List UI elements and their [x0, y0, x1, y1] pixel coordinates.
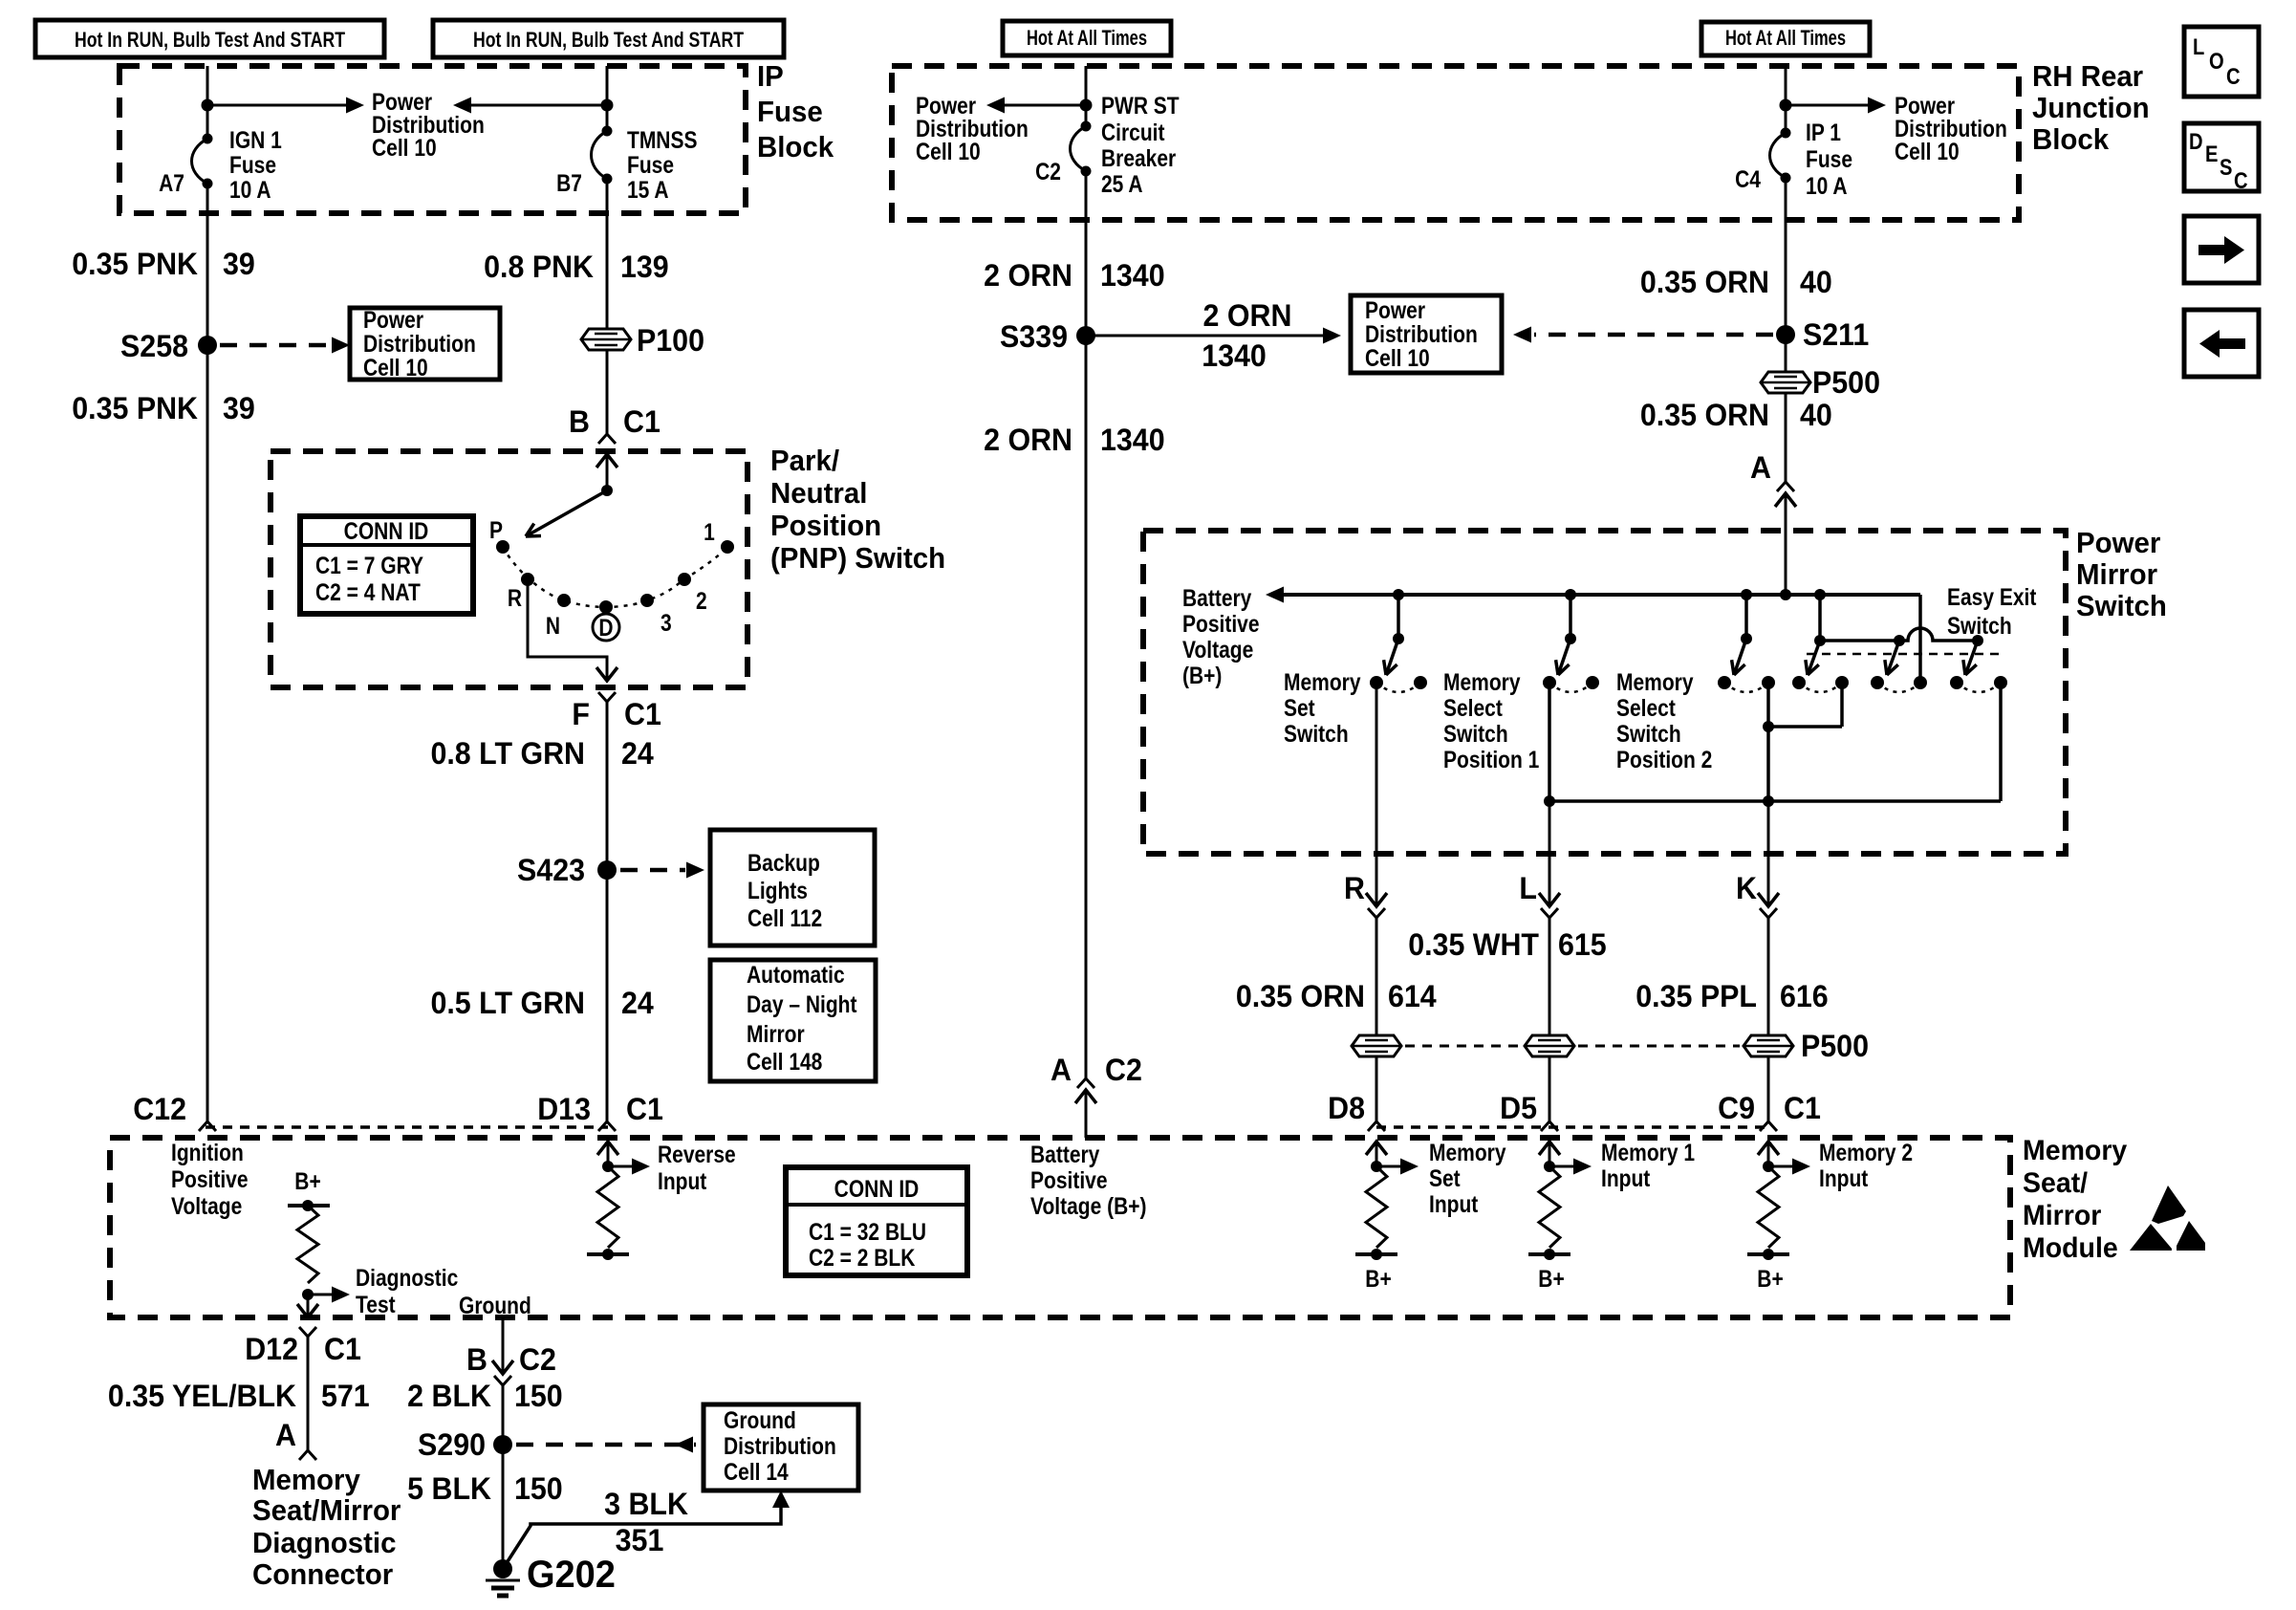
wire 0.35 ORN 40	[1785, 178, 1787, 482]
svg-text:C1: C1	[1784, 1091, 1821, 1125]
svg-text:Connector: Connector	[252, 1558, 393, 1591]
svg-text:Voltage: Voltage	[171, 1192, 242, 1219]
icon box left arrow	[2184, 310, 2259, 377]
svg-text:Ground: Ground	[459, 1292, 531, 1318]
svg-text:0.8 PNK: 0.8 PNK	[484, 250, 594, 284]
svg-text:B: B	[569, 404, 590, 439]
svg-text:1340: 1340	[1100, 423, 1165, 457]
circuit breaker PWR ST 25A	[1071, 126, 1087, 171]
svg-text:C2: C2	[519, 1342, 556, 1377]
svg-text:Voltage: Voltage	[1182, 636, 1253, 663]
svg-text:39: 39	[223, 391, 255, 425]
svg-text:Mirror: Mirror	[2076, 558, 2157, 591]
CONN ID box (module)	[786, 1167, 967, 1275]
easy exit switch sw4	[1808, 641, 1820, 675]
svg-text:351: 351	[616, 1523, 664, 1557]
wire TMNSS feed	[606, 66, 609, 131]
svg-text:Memory: Memory	[1429, 1139, 1506, 1165]
dashed ref arrow S423	[620, 868, 685, 873]
svg-text:N: N	[546, 612, 560, 639]
svg-text:150: 150	[514, 1379, 563, 1413]
svg-text:Memory: Memory	[2023, 1135, 2128, 1166]
svg-text:P100: P100	[637, 323, 704, 358]
svg-text:Hot In RUN, Bulb Test And STAR: Hot In RUN, Bulb Test And START	[75, 30, 346, 53]
svg-text:Cell 10: Cell 10	[1365, 344, 1430, 371]
sw3-sw4 link	[1766, 683, 1770, 801]
svg-text:Test: Test	[356, 1291, 396, 1317]
bus corner to easy exit	[1918, 595, 1922, 683]
arrow S339 to Power Distribution	[1086, 335, 1326, 337]
svg-text:Position: Position	[770, 510, 881, 542]
svg-text:1: 1	[704, 518, 715, 545]
svg-text:0.35 YEL/BLK: 0.35 YEL/BLK	[108, 1379, 297, 1413]
svg-text:Junction: Junction	[2032, 92, 2150, 124]
svg-text:Hot At All Times: Hot At All Times	[1725, 28, 1846, 51]
svg-text:Battery: Battery	[1030, 1141, 1099, 1167]
svg-text:3: 3	[661, 609, 672, 636]
PNP contact N	[557, 594, 571, 607]
svg-text:150: 150	[514, 1471, 563, 1506]
Power Mirror Switch dashed box	[1143, 531, 2066, 854]
connector D5 fork	[1541, 1121, 1558, 1131]
svg-text:139: 139	[620, 250, 669, 284]
bus junction sw3	[1741, 589, 1752, 600]
PNP wiper arrow to P	[526, 490, 607, 536]
PNP entry arrow	[596, 454, 617, 468]
PNP contact R	[521, 573, 534, 586]
svg-text:40: 40	[1800, 265, 1832, 299]
svg-text:(B+): (B+)	[1182, 662, 1222, 688]
wire IP1 feed	[1785, 66, 1787, 133]
svg-text:Battery: Battery	[1182, 584, 1251, 611]
svg-text:CONN ID: CONN ID	[834, 1175, 920, 1202]
svg-text:IP 1: IP 1	[1806, 119, 1841, 145]
svg-text:Voltage (B+): Voltage (B+)	[1030, 1192, 1147, 1219]
arrow to Power Distribution (from TMNSS)	[468, 104, 607, 107]
svg-text:15 A: 15 A	[627, 176, 669, 203]
easy exit switch sw5	[1887, 641, 1899, 675]
svg-text:Switch: Switch	[1616, 720, 1681, 747]
box Automatic Day-Night Mirror Cell 148	[710, 960, 876, 1081]
junction on PWR ST feed	[1080, 99, 1093, 112]
svg-text:614: 614	[1388, 979, 1437, 1013]
svg-text:Module: Module	[2023, 1232, 2118, 1264]
svg-text:S: S	[2220, 154, 2232, 180]
fuse TMNSS 15A	[592, 131, 608, 179]
memory input resistor at x=1850	[1758, 1142, 1779, 1155]
svg-text:Fuse: Fuse	[757, 96, 823, 128]
header box: Hot At All Times (middle)	[1003, 21, 1171, 55]
svg-text:C9: C9	[1718, 1091, 1755, 1125]
svg-text:Positive: Positive	[1030, 1166, 1108, 1193]
wire PWR ST feed	[1085, 66, 1088, 126]
svg-text:2 ORN: 2 ORN	[1203, 298, 1292, 333]
arrow to Power Distribution (left)	[207, 104, 349, 107]
svg-text:Neutral: Neutral	[770, 477, 867, 510]
svg-text:S339: S339	[1000, 319, 1068, 354]
splice S211	[1776, 325, 1795, 344]
svg-text:Cell 10: Cell 10	[363, 354, 428, 381]
svg-text:Lights: Lights	[747, 877, 808, 903]
svg-text:Distribution: Distribution	[1365, 320, 1478, 347]
svg-text:A: A	[1750, 450, 1771, 485]
dashed ref arrow S290	[516, 1443, 696, 1447]
svg-text:5 BLK: 5 BLK	[407, 1471, 491, 1506]
P500 dashed tie 1	[1405, 1045, 1521, 1048]
svg-text:CONN ID: CONN ID	[344, 517, 429, 544]
svg-text:Backup: Backup	[747, 849, 820, 876]
battery bus with arrow	[1281, 593, 1920, 597]
svg-text:S290: S290	[418, 1427, 486, 1462]
svg-text:(PNP) Switch: (PNP) Switch	[770, 542, 945, 575]
PNP contact 3	[640, 594, 654, 607]
svg-text:39: 39	[223, 247, 255, 281]
splice S258	[198, 336, 217, 355]
connector C9 C1 fork	[1760, 1121, 1777, 1131]
svg-text:0.35 ORN: 0.35 ORN	[1236, 979, 1365, 1013]
svg-text:25 A: 25 A	[1101, 170, 1143, 197]
svg-text:0.8 LT GRN: 0.8 LT GRN	[430, 736, 585, 771]
svg-text:Switch: Switch	[1947, 612, 2012, 639]
svg-text:Input: Input	[658, 1167, 707, 1194]
svg-text:IGN 1: IGN 1	[229, 126, 282, 153]
dashed ref arrow S258	[220, 343, 331, 348]
svg-text:Circuit: Circuit	[1101, 119, 1165, 145]
fuse IP 1 10A	[1770, 133, 1787, 178]
svg-text:24: 24	[621, 736, 654, 771]
svg-text:C1: C1	[624, 697, 661, 731]
easy exit branch line with hop	[1818, 595, 1822, 641]
svg-text:Fuse: Fuse	[229, 151, 276, 178]
svg-text:C1 = 32 BLU: C1 = 32 BLU	[809, 1218, 926, 1245]
splice S423	[597, 860, 617, 880]
svg-text:Cell 14: Cell 14	[724, 1458, 789, 1485]
junction on IP1 feed	[1780, 99, 1792, 112]
svg-text:10 A: 10 A	[229, 176, 271, 203]
connector D8 fork	[1368, 1121, 1385, 1131]
svg-text:RH Rear: RH Rear	[2032, 60, 2143, 93]
connector P500 (right)	[1761, 372, 1810, 393]
svg-text:C1: C1	[623, 404, 661, 439]
arrow to Power Distribution (right)	[1786, 104, 1871, 107]
header box: Hot In RUN, Bulb Test And START (second)	[433, 20, 784, 57]
P500 dashed tie 2	[1578, 1045, 1740, 1048]
wire into power mirror switch	[1785, 493, 1787, 595]
header box: Hot In RUN, Bulb Test And START (left)	[35, 20, 384, 57]
svg-text:D13: D13	[537, 1092, 591, 1126]
svg-text:C2 = 2 BLK: C2 = 2 BLK	[809, 1244, 916, 1271]
dashed ref arrow S211 to Power Distribution	[1534, 333, 1773, 337]
RH Rear Junction Block dashed box	[892, 66, 2019, 220]
svg-text:2: 2	[696, 587, 707, 614]
reverse input resistor	[597, 1142, 618, 1155]
connector C1 fine dashed line (left)	[206, 1125, 608, 1129]
svg-text:G202: G202	[527, 1554, 616, 1596]
svg-text:K: K	[1736, 871, 1757, 905]
svg-text:Memory: Memory	[252, 1464, 360, 1496]
svg-text:Block: Block	[2032, 123, 2109, 156]
junction on IGN1 feed	[202, 99, 214, 112]
svg-text:Select: Select	[1616, 694, 1676, 721]
svg-text:Memory: Memory	[1443, 668, 1521, 695]
wire ground 150 lower	[502, 1385, 505, 1569]
svg-text:P500: P500	[1801, 1029, 1869, 1063]
3 BLK 351 branch to ground distribution	[503, 1508, 781, 1569]
connector A fork	[1777, 482, 1794, 491]
svg-text:Switch: Switch	[1443, 720, 1508, 747]
svg-text:B: B	[466, 1342, 487, 1377]
bus junction feed wire	[1780, 589, 1791, 600]
svg-text:L: L	[1519, 871, 1537, 905]
svg-text:Seat/Mirror: Seat/Mirror	[252, 1494, 401, 1527]
svg-text:B+: B+	[1757, 1265, 1783, 1292]
svg-text:Day – Night: Day – Night	[747, 990, 857, 1017]
svg-text:B7: B7	[556, 169, 582, 196]
svg-text:Memory 1: Memory 1	[1601, 1139, 1695, 1165]
svg-text:D5: D5	[1500, 1091, 1537, 1125]
svg-text:Hot In RUN, Bulb Test And STAR: Hot In RUN, Bulb Test And START	[473, 30, 745, 53]
svg-text:616: 616	[1780, 979, 1829, 1013]
svg-text:TMNSS: TMNSS	[627, 126, 697, 153]
svg-text:Select: Select	[1443, 694, 1503, 721]
wire ground 150 upper	[502, 1319, 505, 1374]
wire 0.35 YEL/BLK 571	[307, 1337, 310, 1450]
svg-text:0.35 ORN: 0.35 ORN	[1640, 398, 1769, 432]
svg-text:IP: IP	[757, 60, 784, 93]
bus junction sw2	[1565, 589, 1576, 600]
svg-text:C: C	[2234, 167, 2248, 193]
svg-text:PWR ST: PWR ST	[1101, 92, 1180, 119]
connector C1 fine dashed line (right)	[1376, 1125, 1768, 1129]
svg-text:2 ORN: 2 ORN	[984, 423, 1072, 457]
PNP contact 1	[721, 540, 734, 554]
svg-text:B+: B+	[294, 1167, 320, 1194]
svg-text:C1: C1	[626, 1092, 663, 1126]
Park/Neutral Position (PNP) Switch dashed box	[271, 451, 747, 687]
ESD symbol	[2152, 1186, 2186, 1224]
svg-text:C1 = 7 GRY: C1 = 7 GRY	[315, 552, 424, 578]
svg-text:Positive: Positive	[1182, 610, 1260, 637]
svg-text:Cell 112: Cell 112	[747, 904, 822, 931]
svg-text:Block: Block	[757, 131, 834, 163]
svg-text:3 BLK: 3 BLK	[604, 1487, 688, 1521]
svg-text:A7: A7	[159, 169, 184, 196]
svg-text:Memory: Memory	[1616, 668, 1694, 695]
svg-text:Mirror: Mirror	[747, 1020, 805, 1047]
svg-text:Input: Input	[1429, 1190, 1479, 1217]
svg-text:Park/: Park/	[770, 445, 840, 477]
svg-text:D: D	[598, 614, 613, 641]
bus junction sw1	[1393, 589, 1404, 600]
diagnostic connector end fork	[299, 1450, 316, 1460]
svg-text:Hot At All Times: Hot At All Times	[1027, 28, 1147, 51]
svg-text:S258: S258	[120, 329, 188, 363]
svg-text:Position 2: Position 2	[1616, 746, 1712, 772]
svg-text:Diagnostic: Diagnostic	[356, 1264, 458, 1291]
svg-text:40: 40	[1800, 398, 1832, 432]
svg-text:S423: S423	[517, 853, 585, 887]
wire 2 ORN 1340	[1085, 171, 1088, 1078]
CONN ID box (PNP)	[300, 516, 473, 614]
svg-text:Cell 10: Cell 10	[916, 138, 981, 164]
svg-text:F: F	[572, 697, 590, 731]
connector P100	[581, 329, 631, 350]
svg-text:R: R	[1344, 871, 1365, 905]
PNP contact P	[496, 540, 509, 554]
box Backup Lights Cell 112	[710, 830, 875, 946]
svg-text:Distribution: Distribution	[724, 1432, 836, 1459]
connector B C1 fork	[598, 434, 616, 444]
connector P500 (L wire)	[1525, 1035, 1574, 1056]
svg-text:Cell 10: Cell 10	[372, 134, 437, 161]
connector F C1 fork	[598, 692, 616, 702]
svg-text:A: A	[275, 1418, 296, 1452]
L wire out of switch	[1549, 801, 1551, 906]
svg-text:0.5 LT GRN: 0.5 LT GRN	[430, 986, 585, 1020]
svg-text:Power: Power	[2076, 527, 2161, 559]
svg-text:O: O	[2209, 48, 2224, 74]
icon box LOC	[2184, 27, 2259, 97]
ground G202	[493, 1559, 512, 1578]
svg-text:Position 1: Position 1	[1443, 746, 1539, 772]
svg-text:571: 571	[321, 1379, 370, 1413]
svg-text:Power: Power	[363, 306, 423, 333]
svg-text:24: 24	[621, 986, 654, 1020]
memory select switch position 1 (sw2)	[1569, 595, 1572, 639]
svg-text:C4: C4	[1735, 165, 1761, 192]
svg-text:0.35 ORN: 0.35 ORN	[1640, 265, 1769, 299]
icon box right arrow	[2184, 216, 2259, 283]
svg-text:Input: Input	[1601, 1164, 1651, 1191]
PNP contact arc	[503, 547, 727, 607]
svg-text:Ignition: Ignition	[171, 1139, 244, 1165]
svg-text:2 ORN: 2 ORN	[984, 258, 1072, 293]
connector P500 (K wire)	[1744, 1035, 1793, 1056]
svg-text:0.35 PNK: 0.35 PNK	[72, 391, 198, 425]
svg-text:Ground: Ground	[724, 1406, 796, 1433]
connector P500 (R wire)	[1352, 1035, 1401, 1056]
header box: Hot At All Times (right)	[1701, 22, 1870, 55]
svg-text:0.35 WHT: 0.35 WHT	[1408, 927, 1539, 962]
svg-text:Cell 148: Cell 148	[747, 1048, 823, 1075]
connector C12 fork	[199, 1121, 216, 1131]
svg-text:Switch: Switch	[1284, 720, 1349, 747]
svg-text:C2: C2	[1105, 1053, 1142, 1087]
wire 0.35 PNK 39	[206, 184, 209, 1121]
svg-text:Fuse: Fuse	[627, 151, 674, 178]
bus junction easy-exit branch	[1814, 589, 1826, 600]
fuse IGN 1 10A	[192, 139, 208, 184]
svg-text:0.35 PPL: 0.35 PPL	[1635, 979, 1757, 1013]
splice S290	[493, 1435, 512, 1454]
wire 2 ORN into module	[1085, 1090, 1088, 1138]
memory input resistor at x=1440	[1366, 1142, 1387, 1155]
svg-text:Input: Input	[1819, 1164, 1869, 1191]
svg-text:R: R	[508, 584, 522, 611]
R wire out of switch	[1375, 683, 1378, 906]
svg-text:Easy Exit: Easy Exit	[1947, 583, 2037, 610]
svg-text:Reverse: Reverse	[658, 1141, 736, 1167]
K wire out of switch	[1767, 801, 1770, 906]
svg-text:Memory 2: Memory 2	[1819, 1139, 1913, 1165]
svg-text:L: L	[2193, 33, 2204, 59]
connector A C2 fork	[1077, 1078, 1094, 1088]
svg-text:C: C	[2226, 63, 2241, 89]
svg-text:Set: Set	[1429, 1164, 1461, 1191]
svg-text:S211: S211	[1803, 317, 1869, 352]
svg-text:C1: C1	[324, 1332, 361, 1366]
svg-text:E: E	[2205, 141, 2218, 166]
svg-text:D8: D8	[1328, 1091, 1365, 1125]
svg-text:Power: Power	[1365, 296, 1425, 323]
easy exit switch sw6	[1965, 641, 1978, 675]
connector B C2	[492, 1360, 513, 1374]
svg-text:C2: C2	[1035, 158, 1061, 185]
svg-text:1340: 1340	[1100, 258, 1165, 293]
svg-text:1340: 1340	[1202, 338, 1267, 373]
svg-text:A: A	[1051, 1053, 1072, 1087]
svg-text:D: D	[2189, 128, 2203, 154]
memory input resistor at x=1621	[1539, 1142, 1560, 1155]
svg-text:P: P	[489, 516, 503, 543]
box Power Distribution Cell 10 (S258 ref)	[350, 308, 500, 380]
svg-text:Switch: Switch	[2076, 590, 2167, 622]
PNP wiper pivot	[601, 485, 613, 496]
svg-text:Set: Set	[1284, 694, 1315, 721]
svg-text:C12: C12	[133, 1092, 186, 1126]
splice S339	[1076, 326, 1095, 345]
mechanical link dashed	[1807, 653, 2004, 656]
box Ground Distribution Cell 14	[704, 1404, 858, 1490]
svg-text:B+: B+	[1538, 1265, 1564, 1292]
svg-text:B+: B+	[1365, 1265, 1391, 1292]
svg-text:Breaker: Breaker	[1101, 144, 1176, 171]
IP Fuse Block dashed box	[119, 66, 746, 213]
svg-text:615: 615	[1558, 927, 1607, 962]
svg-text:Mirror: Mirror	[2023, 1200, 2101, 1231]
wire 0.8 PNK 139	[606, 179, 609, 434]
memory set switch (sw1)	[1397, 595, 1400, 639]
svg-text:Distribution: Distribution	[363, 330, 476, 357]
PNP contact D (drive)	[599, 600, 613, 614]
svg-text:P500: P500	[1812, 365, 1880, 400]
svg-text:Cell 10: Cell 10	[1895, 138, 1960, 164]
Memory Seat/Mirror Module dashed box	[110, 1138, 2010, 1317]
PNP R output wire	[528, 579, 607, 681]
svg-text:10 A: 10 A	[1806, 172, 1848, 199]
icon box DESC	[2184, 123, 2259, 191]
svg-text:D12: D12	[245, 1332, 298, 1366]
svg-text:Automatic: Automatic	[747, 961, 845, 988]
svg-text:Positive: Positive	[171, 1165, 249, 1192]
wire IGN1 fuse feed	[206, 66, 209, 139]
sw2 lower bus	[1548, 683, 1551, 801]
junction on TMNSS feed	[601, 99, 614, 112]
svg-text:2 BLK: 2 BLK	[407, 1379, 491, 1413]
box Power Distribution Cell 10 (S339 ref)	[1351, 295, 1502, 373]
wire LT GRN 24	[606, 702, 609, 1121]
svg-text:Seat/: Seat/	[2023, 1167, 2088, 1199]
svg-text:Fuse: Fuse	[1806, 145, 1852, 172]
svg-text:Memory: Memory	[1284, 668, 1361, 695]
arrow to Power Distribution (middle)	[1002, 104, 1086, 107]
PNP contact 2	[678, 573, 691, 586]
connector D13 C1 fork	[598, 1121, 616, 1131]
connector D12 C1	[299, 1327, 316, 1337]
svg-text:0.35 PNK: 0.35 PNK	[72, 247, 198, 281]
svg-text:Diagnostic: Diagnostic	[252, 1527, 396, 1559]
memory select switch position 2 (sw3)	[1744, 595, 1748, 639]
